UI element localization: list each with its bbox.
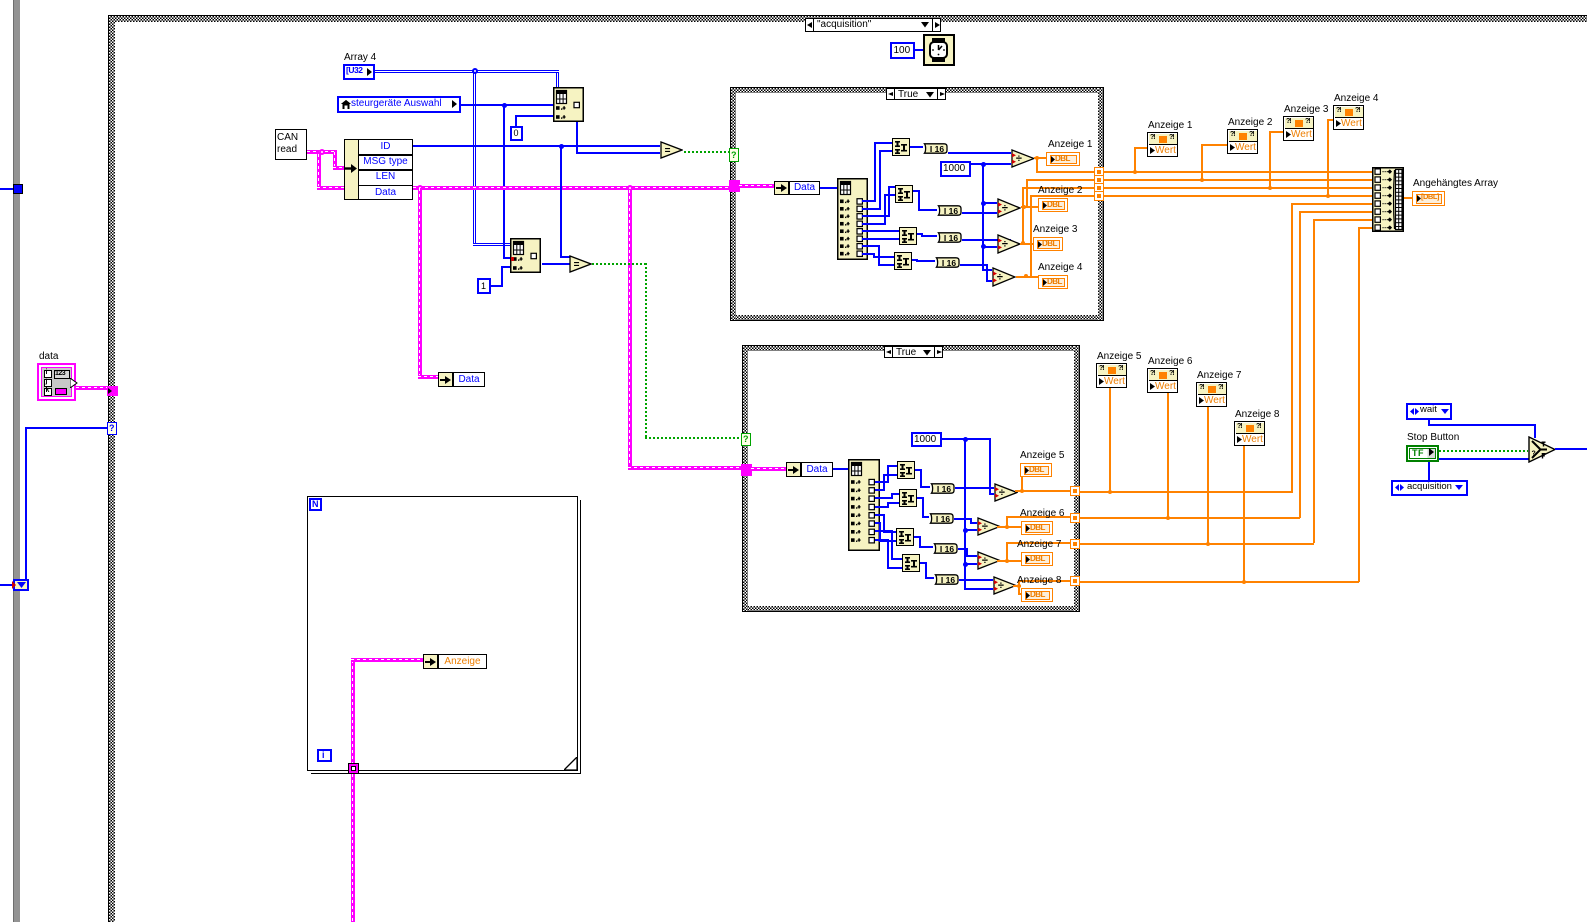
svg-text:=: = bbox=[665, 146, 671, 157]
svg-text:I 16: I 16 bbox=[930, 144, 944, 154]
svg-text:÷: ÷ bbox=[997, 272, 1003, 284]
svg-text:I 16: I 16 bbox=[937, 484, 951, 494]
svg-text:÷: ÷ bbox=[1002, 239, 1008, 251]
svg-text:I 16: I 16 bbox=[944, 206, 958, 216]
svg-text:I 16: I 16 bbox=[942, 258, 956, 268]
svg-text:÷: ÷ bbox=[982, 521, 988, 533]
svg-text:?: ? bbox=[1532, 451, 1536, 458]
svg-text:÷: ÷ bbox=[1016, 153, 1022, 165]
svg-text:I 16: I 16 bbox=[941, 575, 955, 585]
svg-text:=: = bbox=[574, 260, 580, 271]
svg-text:I 16: I 16 bbox=[936, 514, 950, 524]
svg-text:÷: ÷ bbox=[998, 580, 1004, 592]
svg-text:÷: ÷ bbox=[999, 487, 1005, 499]
svg-text:÷: ÷ bbox=[982, 555, 988, 567]
svg-text:÷: ÷ bbox=[1002, 203, 1008, 215]
svg-text:I 16: I 16 bbox=[944, 233, 958, 243]
svg-text:I 16: I 16 bbox=[940, 544, 954, 554]
